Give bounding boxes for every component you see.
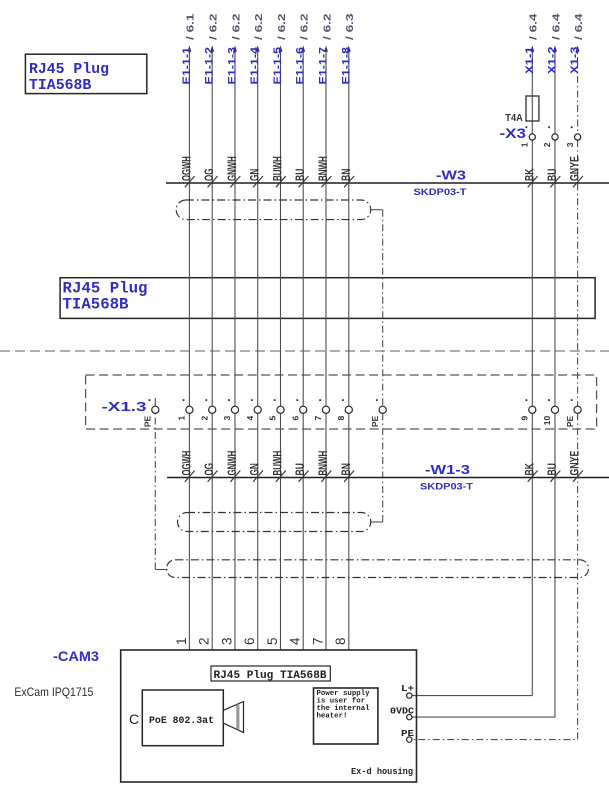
svg-text:BU: BU: [545, 463, 559, 475]
svg-text:SKDP03-T: SKDP03-T: [414, 187, 467, 198]
svg-text:/ 6.4: / 6.4: [574, 13, 585, 40]
svg-text:1: 1: [174, 638, 189, 646]
svg-text:/ 6.3: / 6.3: [345, 13, 356, 40]
svg-text:10: 10: [542, 416, 552, 426]
svg-text:/ 6.2: / 6.2: [300, 13, 311, 40]
svg-text:PE: PE: [143, 415, 153, 427]
svg-text:E1-1-7: E1-1-7: [318, 47, 330, 85]
svg-text:GNWH: GNWH: [225, 156, 239, 181]
svg-text:E1-1-2: E1-1-2: [204, 47, 216, 85]
svg-text:/ 6.4: / 6.4: [529, 13, 540, 40]
svg-text:TIA568B: TIA568B: [29, 78, 92, 94]
svg-text:BN: BN: [339, 463, 353, 475]
svg-text:BU: BU: [545, 169, 559, 181]
svg-text:E1-1-8: E1-1-8: [340, 47, 352, 85]
svg-text:BUWH: BUWH: [271, 451, 285, 476]
svg-text:BK: BK: [522, 168, 536, 181]
svg-text:GNWH: GNWH: [225, 451, 239, 476]
svg-text:/ 6.1: / 6.1: [186, 13, 197, 40]
svg-text:C: C: [129, 711, 139, 727]
svg-text:OGWH: OGWH: [179, 451, 193, 476]
svg-text:/ 6.2: / 6.2: [231, 13, 242, 40]
svg-text:2: 2: [542, 142, 552, 147]
svg-text:ExCam IPQ1715: ExCam IPQ1715: [14, 685, 93, 699]
svg-text:8: 8: [333, 638, 348, 646]
svg-text:E1-1-5: E1-1-5: [272, 47, 284, 85]
svg-text:PE: PE: [370, 415, 380, 427]
svg-text:BU: BU: [293, 463, 307, 475]
svg-text:7: 7: [313, 416, 323, 421]
svg-text:3: 3: [222, 416, 232, 421]
svg-text:X1-1: X1-1: [524, 47, 536, 75]
svg-text:OG: OG: [202, 169, 216, 181]
svg-text:-X3: -X3: [500, 126, 527, 141]
svg-text:GN: GN: [248, 463, 262, 475]
svg-text:3: 3: [565, 142, 575, 147]
svg-text:6: 6: [242, 638, 257, 646]
svg-text:8: 8: [336, 416, 346, 421]
svg-text:GN: GN: [248, 169, 262, 181]
svg-text:X1-2: X1-2: [547, 47, 559, 75]
svg-text:L+: L+: [401, 683, 414, 694]
svg-text:2: 2: [197, 638, 212, 646]
svg-text:3: 3: [219, 638, 234, 646]
svg-text:4: 4: [288, 637, 303, 645]
svg-text:E1-1-4: E1-1-4: [249, 46, 261, 84]
svg-text:TIA568B: TIA568B: [63, 295, 129, 313]
svg-text:BK: BK: [522, 463, 536, 476]
svg-text:GNYE: GNYE: [568, 451, 582, 476]
svg-text:5: 5: [268, 416, 278, 421]
svg-text:BNWH: BNWH: [316, 156, 330, 181]
svg-text:/ 6.2: / 6.2: [254, 13, 265, 40]
svg-text:2: 2: [199, 416, 209, 421]
svg-text:Ex-d housing: Ex-d housing: [351, 767, 413, 777]
svg-text:7: 7: [310, 638, 325, 646]
svg-text:-CAM3: -CAM3: [53, 649, 100, 664]
svg-text:6: 6: [290, 416, 300, 421]
svg-text:heater!: heater!: [317, 712, 348, 720]
svg-text:/ 6.2: / 6.2: [277, 13, 288, 40]
svg-text:4: 4: [245, 416, 255, 421]
svg-text:5: 5: [265, 638, 280, 646]
svg-text:BUWH: BUWH: [271, 156, 285, 181]
svg-text:PoE 802.3at: PoE 802.3at: [149, 716, 214, 727]
svg-text:/ 6.2: / 6.2: [209, 13, 220, 40]
svg-text:PE: PE: [565, 415, 575, 427]
svg-text:-W1-3: -W1-3: [425, 462, 470, 477]
svg-text:SKDP03-T: SKDP03-T: [420, 482, 473, 493]
svg-text:E1-1-6: E1-1-6: [295, 47, 307, 85]
svg-text:-X1.3: -X1.3: [102, 399, 147, 414]
svg-text:E1-1-1: E1-1-1: [181, 47, 193, 85]
svg-text:0VDC: 0VDC: [390, 705, 414, 716]
svg-text:X1-3: X1-3: [569, 47, 581, 75]
svg-text:1: 1: [177, 416, 187, 421]
svg-text:OGWH: OGWH: [179, 156, 193, 181]
svg-text:/ 6.4: / 6.4: [551, 13, 562, 40]
svg-text:BN: BN: [339, 169, 353, 181]
svg-text:OG: OG: [202, 463, 216, 475]
svg-text:BNWH: BNWH: [316, 451, 330, 476]
svg-text:-W3: -W3: [436, 168, 466, 183]
svg-text:9: 9: [520, 416, 530, 421]
svg-text:RJ45 Plug TIA568B: RJ45 Plug TIA568B: [214, 670, 327, 682]
svg-text:BU: BU: [293, 169, 307, 181]
svg-text:E1-1-3: E1-1-3: [227, 47, 239, 85]
svg-text:GNYE: GNYE: [568, 156, 582, 181]
svg-text:RJ45 Plug: RJ45 Plug: [29, 62, 109, 78]
svg-text:/ 6.2: / 6.2: [322, 13, 333, 40]
svg-text:T4A: T4A: [505, 113, 523, 124]
svg-text:1: 1: [520, 142, 530, 147]
svg-text:PE: PE: [401, 728, 414, 739]
